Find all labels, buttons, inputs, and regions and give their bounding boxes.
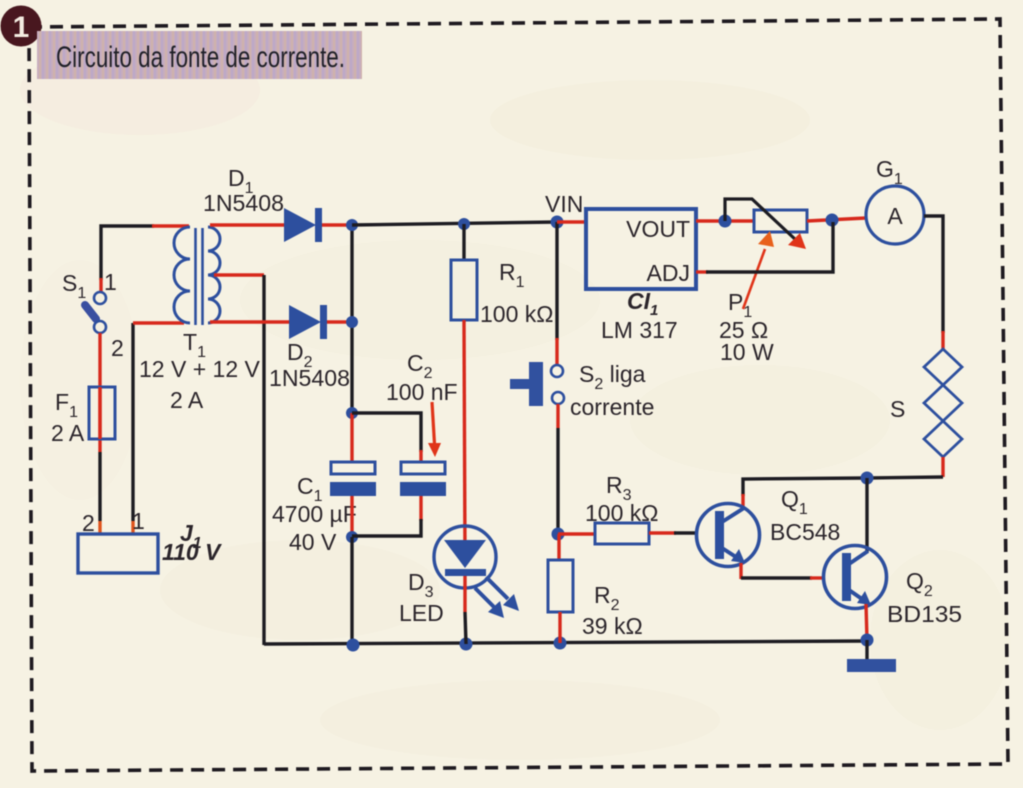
svg-text:BC548: BC548 xyxy=(770,519,840,545)
wire F1 to J1 pin2 xyxy=(98,452,101,534)
ground xyxy=(847,640,896,672)
svg-text:2 A: 2 A xyxy=(51,420,85,446)
connector J1 xyxy=(78,534,158,573)
LED D3 xyxy=(434,526,496,588)
wire Q2 collector xyxy=(865,478,868,552)
wire R2 bottom lead xyxy=(558,612,561,643)
svg-text:LM 317: LM 317 xyxy=(601,317,678,343)
wire primary bottom to J1 pin1 xyxy=(133,323,184,534)
fuse F1 xyxy=(89,387,115,439)
junction R2 R3 xyxy=(552,528,565,541)
wire R3 to Q1 base xyxy=(649,531,698,534)
wire D3 bottom lead xyxy=(465,576,466,644)
pointer arrow C2 xyxy=(428,402,441,457)
wire node to bottom bus xyxy=(350,537,353,645)
bottom bus wire xyxy=(264,641,868,644)
svg-text:1N5408: 1N5408 xyxy=(203,190,284,216)
wire C2 branch bottom xyxy=(352,496,421,536)
svg-text:2 A: 2 A xyxy=(170,387,204,413)
wire C1 bottom lead xyxy=(350,496,353,537)
svg-text:ADJ: ADJ xyxy=(647,260,690,286)
junction D1 D2 node xyxy=(346,219,358,231)
svg-text:100 kΩ: 100 kΩ xyxy=(585,500,658,526)
wire D1 cathode to node xyxy=(322,223,352,226)
wire S1 to F1 xyxy=(98,333,101,452)
wire D2 cathode to node xyxy=(327,320,352,323)
wire Q1 collector rail xyxy=(743,478,867,507)
potentiometer P1 xyxy=(754,210,807,232)
transistor Q1 BC548 xyxy=(697,504,760,567)
svg-text:1: 1 xyxy=(132,508,145,534)
svg-text:1N5408: 1N5408 xyxy=(269,365,350,391)
svg-text:Circuito da fonte de corrente.: Circuito da fonte de corrente. xyxy=(56,41,345,74)
svg-text:10 W: 10 W xyxy=(720,339,774,365)
wire C1 top lead xyxy=(350,413,353,463)
svg-text:4700 µF: 4700 µF xyxy=(272,501,357,527)
switch S1 xyxy=(85,292,106,333)
svg-text:2: 2 xyxy=(111,335,124,361)
diode D2 xyxy=(289,305,327,339)
svg-text:12 V + 12 V: 12 V + 12 V xyxy=(139,356,260,382)
wire rectifier node down xyxy=(350,225,353,413)
svg-text:100 nF: 100 nF xyxy=(386,379,458,405)
wire ADJ loop xyxy=(696,222,833,272)
capacitor C2 xyxy=(400,462,446,496)
junction above R1 xyxy=(458,218,470,230)
junction D2 cathode xyxy=(346,316,358,328)
svg-text:S: S xyxy=(890,396,905,422)
junction collector rail xyxy=(861,472,874,485)
pointer arrow P1 xyxy=(743,231,774,309)
svg-text:2: 2 xyxy=(82,510,95,536)
load S diamonds xyxy=(924,349,962,457)
svg-text:VIN: VIN xyxy=(545,191,583,217)
svg-text:VOUT: VOUT xyxy=(626,216,690,242)
wire node to R3 xyxy=(558,532,596,535)
wire load to collector rail xyxy=(867,457,943,478)
wire secondary middle tap xyxy=(214,273,264,276)
junction bus below D3 xyxy=(460,638,473,651)
resistor R2 xyxy=(548,560,573,612)
wire R1 top lead xyxy=(462,224,465,261)
wire node to R2 xyxy=(557,534,560,561)
svg-text:110 V: 110 V xyxy=(162,539,222,565)
wire VIN to S2 xyxy=(555,222,558,340)
node VIN xyxy=(551,216,564,229)
svg-text:1: 1 xyxy=(13,11,30,44)
wire S1 to primary top xyxy=(101,226,189,292)
wire P1 to G1 xyxy=(807,218,866,221)
light arrows D3 xyxy=(475,577,519,618)
svg-text:BD135: BD135 xyxy=(887,601,962,627)
wire secondary bottom to D2 xyxy=(210,320,289,323)
wire center tap down to bus xyxy=(262,275,265,645)
ammeter G1 xyxy=(866,186,924,244)
svg-text:A: A xyxy=(887,203,903,229)
svg-text:100 kΩ: 100 kΩ xyxy=(480,301,553,327)
svg-text:LED: LED xyxy=(399,600,444,626)
svg-text:corrente: corrente xyxy=(570,394,654,420)
junction bus below C1 xyxy=(347,639,360,652)
junction P1 right xyxy=(826,214,839,227)
svg-text:39 kΩ: 39 kΩ xyxy=(582,613,643,639)
svg-text:40 V: 40 V xyxy=(289,529,337,555)
junction VOUT wiper xyxy=(719,215,732,228)
wiper wire P1 xyxy=(725,199,806,249)
resistor R3 xyxy=(595,523,649,544)
transformer T1 xyxy=(174,227,220,325)
wire Q1 emitter to Q2 base xyxy=(741,563,825,579)
regulator CI1 LM317 xyxy=(586,209,696,289)
junction bus below R2 xyxy=(554,637,567,650)
wire VOUT to P1 xyxy=(696,219,754,222)
wire Q2 emitter to ground xyxy=(866,604,867,640)
diode D1 xyxy=(284,208,322,242)
resistor R1 xyxy=(451,260,477,320)
wire S2 to R2 node xyxy=(556,404,559,534)
capacitor C1 xyxy=(330,462,376,496)
svg-text:1: 1 xyxy=(104,269,117,295)
junction above C1 xyxy=(346,407,358,419)
wire VIN to regulator xyxy=(557,220,586,223)
wire R1 to D3 xyxy=(464,320,465,556)
wire C2 branch top xyxy=(352,413,421,463)
wire secondary top to D1 xyxy=(210,223,284,226)
switch S2 xyxy=(510,362,564,406)
transistor Q2 BD135 xyxy=(824,546,887,609)
wire top bus D1 node to VIN xyxy=(352,222,557,225)
junction below C1 xyxy=(346,531,358,543)
wire G1 to load xyxy=(924,216,943,350)
junction ground node xyxy=(861,634,874,647)
